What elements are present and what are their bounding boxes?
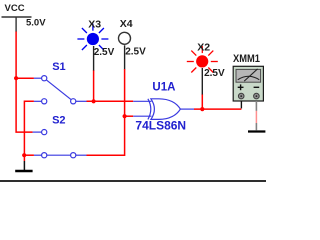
wire XMM1 plus pin [240,101,242,108]
junction gate input B [123,114,127,118]
wire XMM1 minus to ground [255,101,257,130]
junction VCC rail / S1 top throw [14,76,18,80]
svg-text:S1: S1 [52,61,65,73]
svg-text:S2: S2 [52,115,65,127]
power VCC supply [2,3,47,32]
ground GND right [248,130,265,132]
svg-text:5.0V: 5.0V [26,17,46,28]
svg-text:U1A: U1A [152,82,175,94]
multimeter XMM1 [233,54,263,101]
XOR gate U1A 74LS86N [133,82,194,133]
svg-text:VCC: VCC [5,3,25,14]
svg-text:X3: X3 [88,18,101,30]
svg-text:XMM1: XMM1 [233,54,260,66]
sheet border bottom [0,180,266,182]
svg-text:74LS86N: 74LS86N [135,118,186,132]
probe X2 [187,42,225,95]
wire S1 top throw [16,77,34,79]
wire X4 lead / S2 pole to gate input B [87,69,125,155]
junction X3 lead / input A [92,99,96,103]
wire gate output to XMM1 [194,108,241,110]
wire VCC rail down to S2 top throw [16,32,32,133]
probe X3 [77,18,114,70]
wire S1 bottom throw down to ground node [24,101,34,161]
wire S1 pole to gate input A [87,100,134,102]
probe X4 [119,18,147,69]
wire X2 lead lower segment [201,94,203,109]
wire junction to S2 bottom throw [24,154,34,156]
svg-text:2.5V: 2.5V [94,47,115,58]
wire X3 lead to node A [93,70,95,101]
svg-text:X2: X2 [197,42,210,54]
junction ground rail / S2 bottom throw [22,153,26,157]
svg-text:X4: X4 [120,18,133,30]
switch S2 [33,115,87,158]
svg-text:2.5V: 2.5V [125,47,146,58]
switch S1 [34,61,87,104]
junction X2 lead / output [200,107,204,111]
svg-text:2.5V: 2.5V [204,68,225,79]
ground GND left [15,161,32,171]
